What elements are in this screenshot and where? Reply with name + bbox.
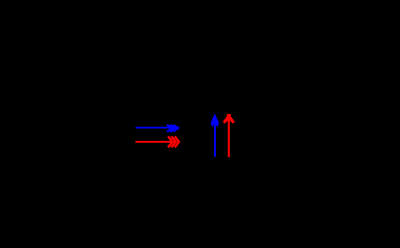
blue horizontal velocity vector: wire/shaft xyxy=(136,127,173,129)
blue vertical velocity vector: arrowhead xyxy=(211,116,218,126)
red horizontal acceleration vector: arrowhead xyxy=(168,136,179,147)
red vertical acceleration vector: arrowhead xyxy=(224,115,234,123)
blue vertical velocity vector: shaft xyxy=(214,118,216,157)
red vertical acceleration vector: shaft xyxy=(228,116,230,157)
red horizontal acceleration vector: shaft xyxy=(135,141,175,143)
blue horizontal velocity vector: arrowhead xyxy=(167,125,178,132)
